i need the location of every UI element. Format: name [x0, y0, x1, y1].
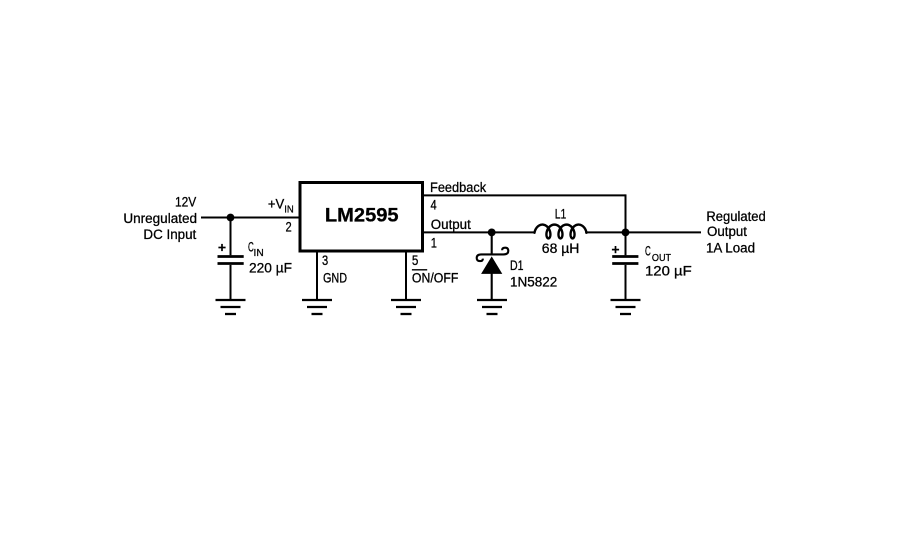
pin 5 labels with overline on ON: [412, 253, 459, 286]
diode D1 triangle: [481, 256, 502, 274]
svg-text:12V: 12V: [175, 195, 196, 210]
svg-text:OUT: OUT: [652, 252, 672, 264]
svg-text:Regulated: Regulated: [706, 209, 765, 224]
svg-text:GND: GND: [323, 271, 347, 286]
svg-text:1A Load: 1A Load: [706, 241, 755, 256]
ground: COUT: [611, 300, 641, 314]
ground: diode D1: [477, 300, 507, 314]
junction: input node: [227, 214, 235, 222]
ground: pin 3: [302, 300, 332, 314]
node: regulated output label: [706, 209, 766, 256]
wire: output node down to COUT: [625, 232, 627, 255]
wire: output pin 1 to inductor: [424, 231, 535, 233]
ground: CIN: [216, 300, 246, 314]
svg-text:ON/OFF: ON/OFF: [412, 271, 459, 286]
label L1 value: [542, 207, 580, 256]
svg-text:Unregulated: Unregulated: [123, 211, 197, 226]
wire: feedback pin 4 horizontal: [424, 194, 626, 196]
wire: inductor to output: [585, 231, 701, 233]
junction: output node: [622, 229, 630, 237]
svg-text:LM2595: LM2595: [325, 206, 399, 227]
svg-text:5: 5: [412, 253, 419, 268]
polarity + for CIN: [218, 244, 225, 251]
node: 12V unregulated DC input label: [123, 195, 197, 243]
capacitor COUT: [612, 257, 638, 264]
svg-text:1N5822: 1N5822: [510, 275, 557, 290]
wire: input node down to CIN: [230, 218, 232, 256]
svg-text:D1: D1: [510, 258, 524, 273]
wire: diode to ground: [491, 273, 493, 300]
label CIN value: [248, 239, 292, 275]
pin 1 labels Output: [431, 217, 471, 251]
wire: COUT to ground: [625, 265, 627, 300]
svg-text:Output: Output: [431, 217, 471, 232]
pin 2 label +VIN: [268, 196, 294, 234]
polarity + for COUT: [612, 246, 619, 253]
diode D1 schottky cathode bar: [477, 248, 509, 261]
pin 3 wire GND: [316, 251, 318, 300]
ground: pin 5: [391, 300, 421, 314]
label D1 1N5822: [510, 258, 557, 290]
pin 5 wire ON/OFF: [405, 251, 407, 300]
label COUT value: [645, 243, 692, 278]
junction: diode node: [488, 229, 496, 237]
svg-text:Output: Output: [707, 224, 747, 239]
pin 3 labels: [322, 253, 347, 286]
svg-text:IN: IN: [254, 247, 264, 259]
capacitor CIN: [218, 257, 244, 264]
inductor L1: [535, 225, 587, 239]
svg-text:DC Input: DC Input: [143, 227, 196, 242]
svg-text:220 µF: 220 µF: [249, 261, 292, 276]
wire: input to pin 2: [201, 217, 300, 219]
pin 4 labels Feedback: [430, 180, 486, 213]
svg-text:3: 3: [322, 253, 328, 268]
svg-text:Feedback: Feedback: [430, 180, 486, 195]
svg-text:1: 1: [431, 235, 437, 250]
svg-text:120 µF: 120 µF: [645, 264, 692, 279]
svg-text:IN: IN: [284, 203, 294, 215]
svg-text:2: 2: [286, 219, 292, 234]
svg-text:C: C: [645, 243, 651, 258]
svg-text:68 µH: 68 µH: [542, 241, 580, 256]
op-amp U1: LM2595 regulator box: [300, 183, 423, 252]
wire: CIN to ground: [230, 265, 232, 300]
svg-text:+V: +V: [268, 196, 284, 211]
wire: down to diode D1: [491, 232, 493, 254]
svg-text:4: 4: [431, 198, 438, 213]
svg-text:L1: L1: [555, 207, 567, 222]
wire: feedback vertical down to output node: [625, 194, 627, 232]
